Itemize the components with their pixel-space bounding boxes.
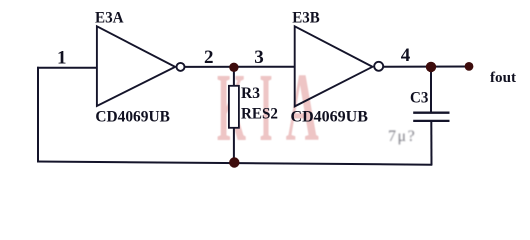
resistor R3 body [229, 86, 239, 128]
wire R3 bottom lead [233, 128, 235, 164]
wire node2-node3 horizontal [185, 66, 296, 68]
op-amp U1 inverter E3A triangle [97, 26, 185, 106]
wire bottom rail [37, 162, 432, 165]
svg-text:R3: R3 [241, 85, 260, 102]
node 2 junction dot [229, 63, 238, 72]
wire node1 horizontal [37, 67, 97, 69]
wire node4 horizontal [384, 66, 469, 68]
node 4 junction dot [426, 62, 436, 72]
svg-text:7μ?: 7μ? [388, 128, 416, 145]
svg-text:CD4069UB: CD4069UB [95, 109, 170, 126]
svg-text:CD4069UB: CD4069UB [291, 109, 369, 126]
wire left vertical feedback [37, 67, 39, 163]
svg-text:E3A: E3A [95, 9, 124, 26]
svg-text:1: 1 [57, 48, 67, 69]
svg-text:2: 2 [204, 47, 214, 68]
wire C3 top lead [430, 67, 432, 113]
svg-text:4: 4 [401, 45, 411, 66]
capacitor C3 plates [413, 113, 449, 121]
node bottom junction dot [229, 157, 239, 167]
node fout terminal dot [465, 62, 474, 71]
svg-text:3: 3 [254, 47, 263, 68]
svg-text:RES2: RES2 [241, 105, 278, 122]
svg-text:fout: fout [490, 70, 516, 86]
op-amp U2 inverter E3B triangle [295, 26, 384, 106]
wire R3 top lead [233, 67, 235, 87]
svg-text:A: A [286, 54, 319, 161]
svg-text:E3B: E3B [292, 9, 320, 26]
wire C3 bottom lead [430, 121, 432, 166]
svg-text:C3: C3 [410, 90, 428, 107]
